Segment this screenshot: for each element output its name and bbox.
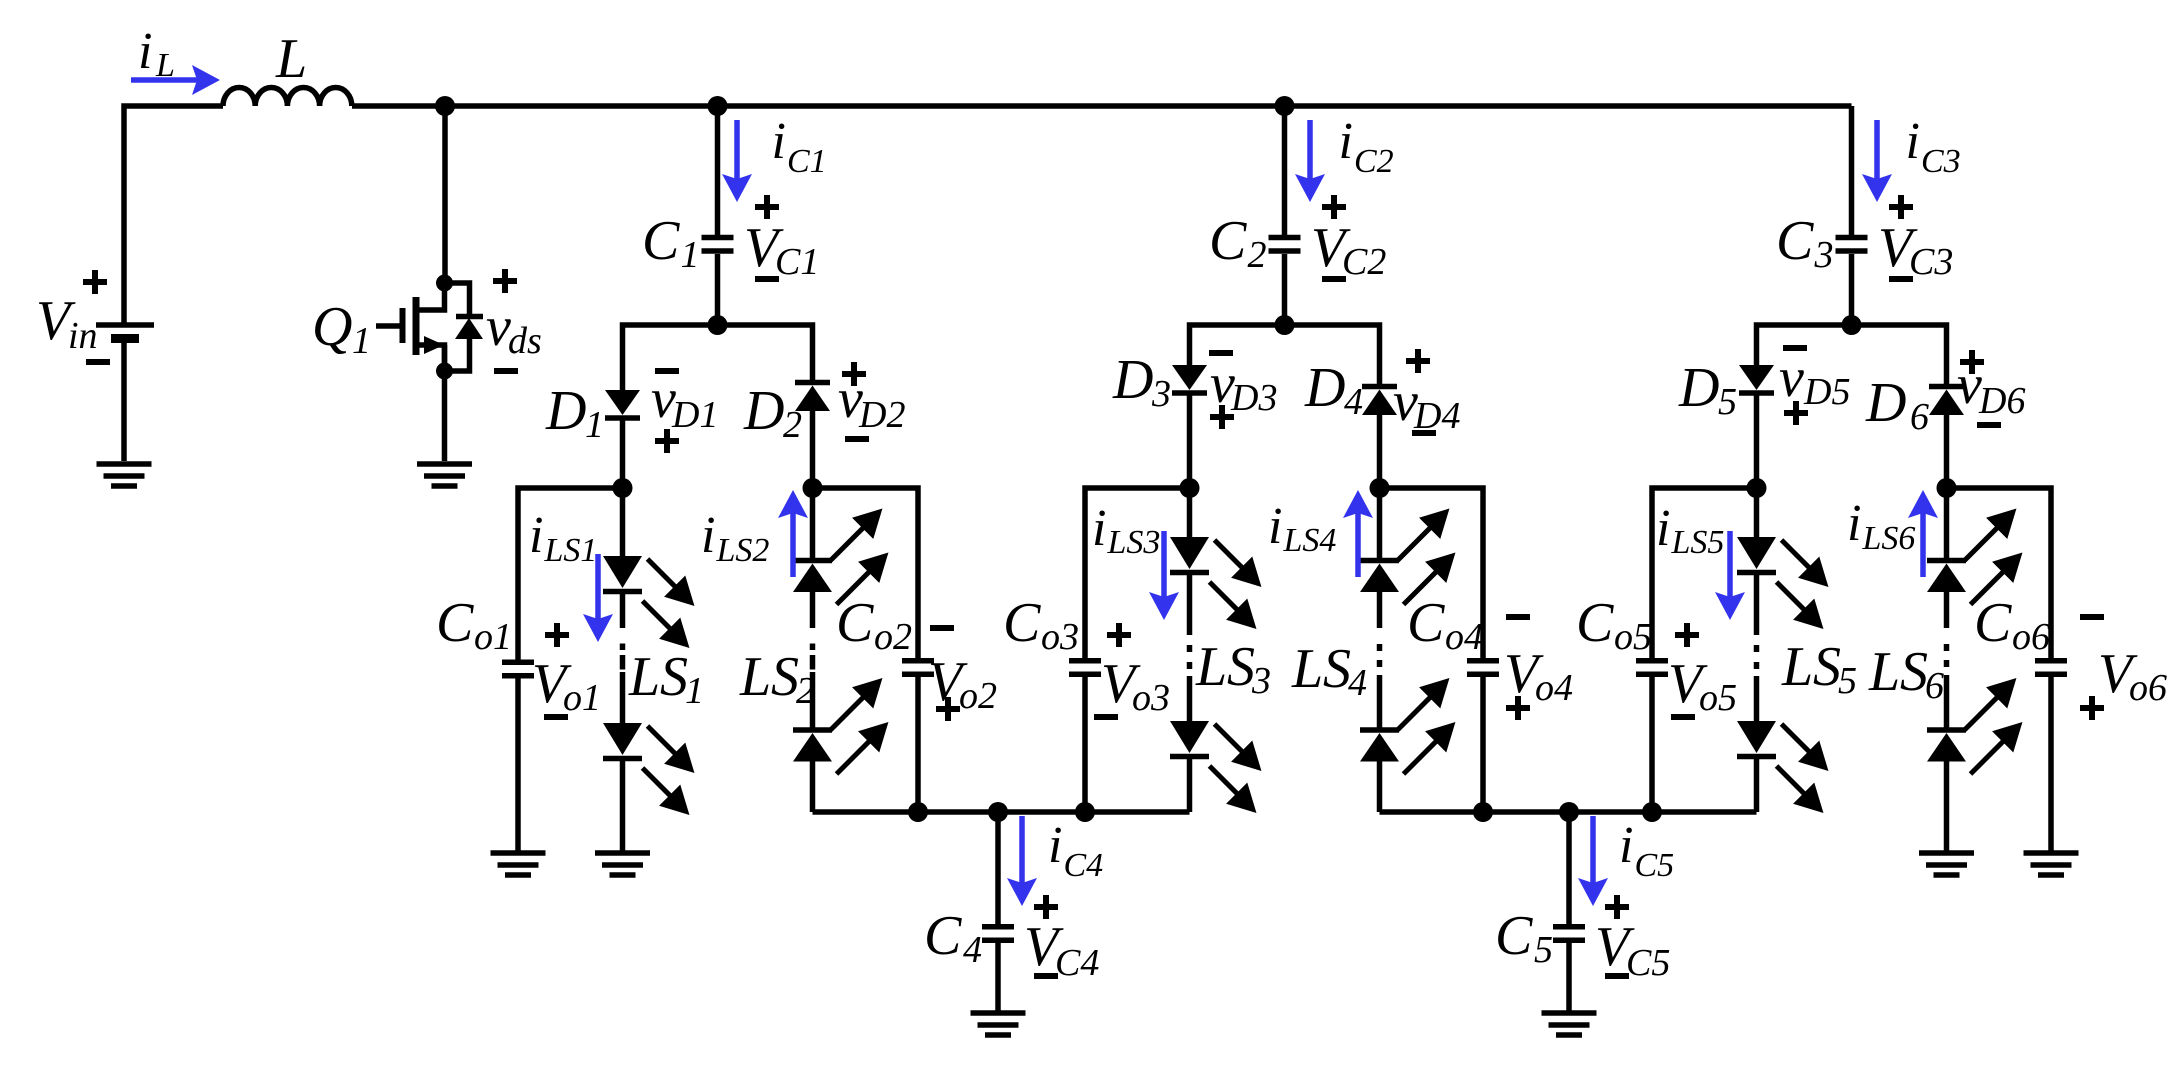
current arrow iLS4 [1355, 498, 1361, 577]
label Q1 [312, 296, 371, 362]
svg-text:C: C [1576, 592, 1614, 654]
dotted break LS5 [1754, 628, 1760, 669]
LED string LS5 lower LED [1737, 721, 1776, 757]
label Co6 [1974, 592, 2050, 658]
label iLS2 [701, 507, 769, 569]
svg-text:5: 5 [1534, 929, 1553, 971]
label C1 [642, 210, 700, 276]
label iLS1 [529, 507, 597, 569]
wire (Vin to inductor) [124, 106, 223, 325]
svg-text:4: 4 [1344, 381, 1363, 423]
wire (D6 to LS6 node) [1944, 415, 1950, 488]
svg-text:i: i [1619, 817, 1633, 874]
plus (VC3) [1889, 195, 1913, 219]
svg-text:o4: o4 [1445, 616, 1483, 658]
svg-text:C3: C3 [1921, 143, 1961, 180]
svg-text:2: 2 [796, 670, 815, 712]
plus (vds) [493, 269, 517, 293]
svg-text:i: i [1847, 495, 1861, 552]
svg-text:o2: o2 [874, 616, 912, 658]
wire (C1 node to D1/D2) [623, 325, 813, 390]
node (rail / C2) [1275, 96, 1295, 116]
plus (Vo2) [936, 697, 960, 721]
wire (node to LS2) [810, 488, 816, 558]
label vD3 [1210, 353, 1277, 419]
diode D3 [1172, 365, 1207, 393]
wire [810, 592, 816, 628]
wire (LS1 node to Co1) [518, 488, 623, 660]
svg-text:o5: o5 [1614, 616, 1652, 658]
svg-text:C2: C2 [1354, 143, 1394, 180]
node (Co3 bottom) [1075, 802, 1095, 822]
diode D2 [795, 383, 830, 412]
wire (LS5 bottom) [1754, 759, 1760, 812]
label D1 [545, 380, 604, 446]
wire [1187, 575, 1193, 628]
node (Co5 bottom) [1642, 802, 1662, 822]
wire [810, 672, 816, 730]
wire (LS4 node to Co4) [1380, 488, 1484, 658]
label D3 [1112, 349, 1171, 415]
label vD2 [838, 368, 905, 436]
wire (D2 to LS2 node) [810, 411, 816, 488]
svg-text:LS5: LS5 [1671, 524, 1725, 561]
label LS1 [628, 646, 660, 708]
svg-text:L: L [275, 28, 307, 90]
plus (Vo5) [1675, 623, 1699, 647]
current arrow iC4 [1019, 816, 1025, 898]
node (top of LS1) [613, 478, 633, 498]
node (top of LS3) [1180, 478, 1200, 498]
svg-text:C4: C4 [1055, 942, 1099, 984]
node (C3 bottom) [1842, 315, 1862, 335]
LED string LS6 upper LED [1927, 561, 1966, 593]
node (Q1 drain) [436, 275, 453, 292]
inductor L [223, 87, 352, 106]
wire (LS2 node to Co2) [813, 488, 919, 658]
current arrow iC3 [1874, 120, 1880, 194]
minus (Vo5) [1671, 714, 1695, 720]
wire (LS6 bottom) [1944, 762, 1950, 852]
current arrow iLS5 [1727, 531, 1733, 612]
ground (LS1) [595, 853, 650, 875]
label VC3 [1878, 217, 1953, 283]
transistor Q1 (MOSFET) [376, 283, 445, 371]
plus (Vo6) [2080, 696, 2104, 720]
plus (vD4) [1406, 349, 1430, 373]
wire (rail to C3) [1849, 106, 1855, 235]
svg-text:S: S [1227, 636, 1255, 698]
svg-text:o6: o6 [2012, 616, 2050, 658]
svg-text:S: S [1900, 641, 1928, 703]
node (top of LS5) [1747, 478, 1767, 498]
wire [1754, 676, 1760, 721]
node (top of LS4) [1370, 478, 1390, 498]
wire (C2 node to D3/D4) [1190, 325, 1380, 384]
light rays (LS2 upper) [831, 514, 883, 604]
minus (vds) [494, 368, 518, 374]
wire (Co6 to ground) [2048, 677, 2054, 851]
minus (vD5) [1783, 345, 1807, 351]
label Co4 [1407, 592, 1483, 658]
dotted break LS4 [1377, 644, 1383, 682]
label vD6 [1957, 354, 2025, 422]
minus (VC3) [1889, 276, 1913, 282]
minus (VC4) [1034, 973, 1058, 979]
svg-text:ds: ds [508, 320, 542, 362]
svg-text:L: L [628, 646, 660, 708]
wire (LS6 node to Co6) [1947, 488, 2052, 658]
capacitor C1 [702, 238, 734, 252]
svg-text:Q: Q [312, 296, 352, 358]
LED string LS2 upper LED [793, 561, 832, 593]
svg-text:o2: o2 [959, 675, 997, 717]
svg-text:o1: o1 [474, 616, 512, 658]
svg-text:o3: o3 [1041, 616, 1079, 658]
svg-text:3: 3 [1251, 660, 1271, 702]
svg-text:2: 2 [783, 404, 802, 446]
wire (LS2 bottom) [810, 762, 816, 813]
svg-text:6: 6 [1925, 665, 1944, 707]
wire (Co4 to bottom rail) [1480, 677, 1486, 812]
label vD4 [1393, 371, 1460, 437]
node (rail / C1) [708, 96, 728, 116]
wire [620, 594, 626, 628]
svg-text:5: 5 [1718, 381, 1737, 423]
current arrow iC5 [1590, 816, 1596, 898]
svg-text:v: v [1779, 347, 1804, 409]
svg-text:D: D [1865, 372, 1906, 434]
diode D5 [1739, 365, 1774, 393]
wire (C2 to diode node) [1282, 254, 1288, 325]
label D4 [1304, 357, 1363, 423]
wire (Co3 to bottom rail) [1082, 677, 1088, 812]
wire (node to LS5) [1754, 488, 1760, 537]
svg-text:L: L [1868, 641, 1900, 703]
minus (vD4) [1412, 430, 1436, 436]
node (rail / Q1 drain) [435, 96, 455, 116]
ground (Co6) [2024, 853, 2079, 875]
wire (LS1 bottom) [620, 761, 626, 851]
svg-text:4: 4 [963, 929, 982, 971]
current arrow iC1 [734, 120, 740, 194]
svg-text:D: D [743, 380, 784, 442]
light rays (LS1 upper) [643, 559, 689, 642]
node (Q1 source) [436, 363, 453, 380]
label Vo5 [1668, 653, 1737, 719]
label Co3 [1003, 592, 1079, 658]
minus (Vo6) [2080, 614, 2104, 620]
body diode of Q1 [445, 283, 484, 371]
svg-text:C4: C4 [1064, 847, 1104, 884]
wire (Vin to ground) [121, 341, 127, 461]
plus (vD6) [1960, 350, 1984, 374]
ground (Vin) [97, 464, 152, 486]
svg-text:D: D [1112, 349, 1153, 411]
light rays (LS3 lower) [1210, 724, 1256, 807]
svg-text:C: C [1209, 210, 1247, 272]
light rays (LS2 lower) [831, 684, 883, 774]
wire [1377, 592, 1383, 628]
svg-text:i: i [772, 113, 786, 170]
wire (D4 to LS4 node) [1377, 415, 1383, 488]
svg-text:C: C [1776, 210, 1814, 272]
label LS3 [1195, 636, 1227, 698]
svg-text:L: L [1291, 638, 1323, 700]
label LS6 [1868, 641, 1900, 703]
light rays (LS5 lower) [1777, 724, 1823, 807]
node (C1 bottom) [708, 315, 728, 335]
svg-text:i: i [1048, 817, 1062, 874]
light rays (LS3 upper) [1210, 540, 1256, 623]
wire [620, 672, 626, 723]
wire (D3 to LS3 node) [1187, 395, 1193, 488]
node (C2 bottom) [1275, 315, 1295, 335]
svg-text:LS6: LS6 [1862, 520, 1916, 557]
svg-text:S: S [1323, 638, 1351, 700]
svg-text:i: i [1092, 500, 1106, 557]
capacitor Co6 [2035, 661, 2067, 675]
wire (rail to C2) [1282, 106, 1288, 235]
wire (C1 to diode node) [715, 254, 721, 325]
svg-text:C: C [1003, 592, 1041, 654]
wire (LS5 node to Co5) [1652, 488, 1757, 661]
plus (VC5) [1605, 895, 1629, 919]
diode D1 [605, 390, 640, 418]
diode D4 [1362, 387, 1397, 416]
minus (Vin) [86, 359, 110, 365]
svg-text:L: L [1781, 636, 1813, 698]
svg-text:D5: D5 [1803, 371, 1850, 413]
wire (node to LS1) [620, 488, 626, 556]
wire (LS4 bottom) [1377, 762, 1383, 813]
svg-text:i: i [529, 507, 543, 564]
wire (node to LS6) [1944, 488, 1950, 558]
label C4 [924, 905, 982, 971]
svg-text:o6: o6 [2129, 667, 2167, 709]
wire (top rail) [352, 103, 1852, 109]
capacitor C5 [1553, 927, 1585, 941]
capacitor Co4 [1467, 661, 1499, 675]
plus (vD5) [1784, 401, 1808, 425]
capacitor C3 [1836, 238, 1868, 252]
svg-text:D3: D3 [1230, 377, 1277, 419]
svg-text:L: L [155, 47, 175, 84]
svg-text:i: i [138, 23, 152, 80]
wire (D1 to LS1 node) [620, 420, 626, 488]
light rays (LS5 upper) [1777, 540, 1823, 623]
wire (C3 node to D5/D6) [1757, 325, 1947, 384]
LED string LS3 upper LED [1170, 537, 1209, 573]
svg-text:6: 6 [1910, 396, 1929, 438]
wire (rail to Q1 drain) [442, 106, 448, 283]
node (top of LS6) [1937, 478, 1957, 498]
svg-text:D: D [1678, 357, 1719, 419]
LED string LS4 upper LED [1360, 561, 1399, 593]
light rays (LS4 lower) [1398, 684, 1450, 774]
svg-text:C: C [642, 210, 680, 272]
node (top of LS2) [803, 478, 823, 498]
LED string LS5 upper LED [1737, 537, 1776, 573]
label iC1 [772, 113, 827, 180]
svg-text:2: 2 [1248, 234, 1267, 276]
svg-text:1: 1 [685, 670, 704, 712]
svg-text:C: C [1974, 592, 2012, 654]
label iLS4 [1268, 498, 1336, 559]
plus (Vo4) [1506, 696, 1530, 720]
label Co2 [836, 592, 912, 658]
dash-dot break LS1 [620, 644, 626, 670]
minus (vD2) [845, 436, 869, 442]
svg-text:3: 3 [1814, 234, 1834, 276]
current arrow iLS2 [790, 498, 796, 577]
label D2 [743, 380, 802, 446]
label vds [486, 296, 542, 362]
LED string LS4 lower LED [1360, 730, 1399, 762]
svg-text:C5: C5 [1626, 942, 1670, 984]
minus (VC1) [755, 276, 779, 282]
label iC2 [1339, 113, 1394, 180]
label Vo4 [1504, 643, 1573, 709]
svg-text:C3: C3 [1909, 241, 1953, 283]
wire (LS3 bottom) [1187, 759, 1193, 812]
node (C4 top) [988, 802, 1008, 822]
label D6 [1865, 372, 1929, 438]
svg-text:1: 1 [585, 404, 604, 446]
wire (Co5 to bottom rail) [1649, 677, 1655, 812]
svg-text:i: i [1906, 113, 1920, 170]
svg-text:D2: D2 [858, 394, 905, 436]
wire [1944, 592, 1950, 628]
capacitor Co2 [902, 661, 934, 675]
LED string LS6 lower LED [1927, 730, 1966, 762]
svg-text:o5: o5 [1699, 677, 1737, 719]
svg-text:C: C [924, 905, 962, 967]
current arrow iLS6 [1920, 498, 1926, 577]
wire (C5 to ground) [1566, 943, 1572, 1011]
svg-text:i: i [1268, 498, 1282, 555]
svg-text:o1: o1 [563, 677, 601, 719]
light rays (LS6 upper) [1965, 514, 2017, 604]
diode D6 [1929, 387, 1964, 416]
label LS2 [739, 646, 771, 708]
LED string LS2 lower LED [793, 730, 832, 762]
label vD1 [651, 368, 718, 436]
svg-text:L: L [1195, 636, 1227, 698]
svg-text:C: C [436, 592, 474, 654]
label VC2 [1311, 217, 1386, 283]
voltage source Vin [96, 325, 154, 339]
label L [275, 28, 307, 90]
svg-text:D: D [545, 380, 586, 442]
svg-text:D1: D1 [671, 394, 718, 436]
plus (vD1) [655, 429, 679, 453]
svg-text:C5: C5 [1635, 847, 1675, 884]
label Vo2 [928, 651, 997, 717]
ground (LS6) [1919, 853, 1974, 875]
minus (Vo2) [930, 625, 954, 631]
wire (bottom rail 1) [813, 809, 1190, 815]
capacitor Co3 [1069, 661, 1101, 675]
svg-text:L: L [739, 646, 771, 708]
current arrow iL [131, 77, 212, 83]
label iLS6 [1847, 495, 1915, 557]
label iL [138, 23, 175, 84]
minus (VC2) [1322, 276, 1346, 282]
label iC4 [1048, 817, 1103, 884]
plus (Vo3) [1107, 623, 1131, 647]
minus (VC5) [1605, 973, 1629, 979]
minus (Vo1) [544, 714, 568, 720]
ground (Co1) [491, 853, 546, 875]
wire (rail to C1) [715, 106, 721, 235]
label LS4 [1291, 638, 1323, 700]
wire (D5 to LS5 node) [1754, 395, 1760, 488]
label vD5 [1779, 347, 1850, 413]
label VC4 [1024, 916, 1099, 984]
svg-text:C: C [1407, 592, 1445, 654]
label Co5 [1576, 592, 1652, 658]
LED string LS1 upper LED [603, 556, 642, 592]
wire (C3 to diode node) [1849, 254, 1855, 325]
plus (Vin) [83, 270, 107, 294]
label Vo6 [2098, 643, 2167, 709]
node (Co4 bottom) [1473, 802, 1493, 822]
svg-text:i: i [701, 507, 715, 564]
node (Co2 bottom) [908, 802, 928, 822]
minus (Vo4) [1506, 614, 1530, 620]
svg-text:in: in [68, 315, 98, 357]
svg-text:S: S [771, 646, 799, 708]
minus (vD6) [1977, 422, 2001, 428]
label iLS5 [1656, 500, 1724, 561]
svg-text:LS3: LS3 [1107, 524, 1161, 561]
svg-text:LS4: LS4 [1283, 522, 1337, 559]
wire [1187, 676, 1193, 721]
svg-text:3: 3 [1151, 373, 1171, 415]
label VC5 [1595, 916, 1670, 984]
svg-text:C1: C1 [787, 143, 827, 180]
svg-text:C: C [1495, 905, 1533, 967]
svg-text:D: D [1304, 357, 1345, 419]
LED string LS3 lower LED [1170, 721, 1209, 757]
capacitor C2 [1269, 238, 1301, 252]
current arrow iC2 [1307, 120, 1313, 194]
capacitor C4 [982, 927, 1014, 941]
wire (Co1 to ground) [515, 678, 521, 851]
dotted break LS3 [1187, 628, 1193, 669]
label Vin [36, 290, 98, 357]
capacitor Co1 [502, 662, 534, 676]
wire (Q1 source to ground) [442, 345, 448, 461]
plus (VC2) [1322, 195, 1346, 219]
wire [1377, 682, 1383, 730]
wire (node to LS4) [1377, 488, 1383, 558]
light rays (LS1 lower) [643, 726, 689, 809]
label LS5 [1781, 636, 1813, 698]
svg-text:LS2: LS2 [716, 532, 770, 569]
minus (vD1) [655, 368, 679, 374]
svg-text:o3: o3 [1132, 677, 1170, 719]
svg-text:1: 1 [352, 320, 371, 362]
label C3 [1776, 210, 1834, 276]
wire [1754, 575, 1760, 628]
light rays (LS4 upper) [1398, 514, 1450, 604]
wire (node to LS3) [1187, 488, 1193, 537]
label Vo1 [532, 653, 601, 719]
svg-text:1: 1 [681, 234, 700, 276]
ground (C5) [1542, 1013, 1597, 1035]
